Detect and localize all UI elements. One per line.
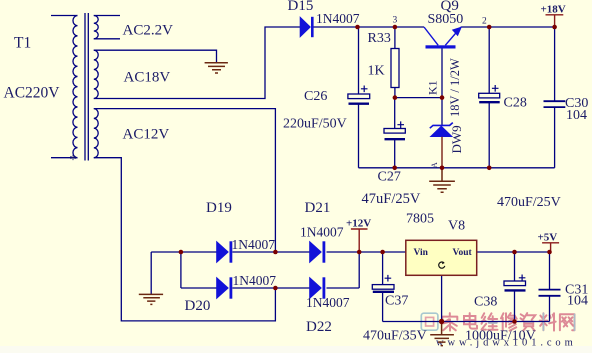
svg-text:470uF/35V: 470uF/35V: [363, 329, 427, 344]
svg-text:+12V: +12V: [346, 218, 371, 230]
svg-text:1N4007: 1N4007: [300, 225, 344, 240]
svg-text:A: A: [430, 162, 439, 168]
svg-text:C27: C27: [378, 170, 401, 185]
svg-text:Vout: Vout: [453, 248, 473, 258]
svg-text:3: 3: [393, 16, 398, 26]
svg-text:DW9: DW9: [449, 125, 464, 153]
svg-text:1K: 1K: [368, 64, 385, 79]
svg-text:7805: 7805: [406, 212, 434, 227]
svg-text:*: *: [70, 153, 77, 168]
svg-text:C37: C37: [385, 294, 408, 309]
svg-text:R33: R33: [368, 31, 391, 46]
svg-text:D22: D22: [306, 319, 332, 335]
svg-text:D21: D21: [305, 200, 331, 216]
svg-text:+5V: +5V: [538, 232, 558, 244]
svg-text:470uF/25V: 470uF/25V: [497, 195, 561, 210]
svg-text:Vin: Vin: [414, 248, 429, 258]
svg-text:AC2.2V: AC2.2V: [123, 23, 174, 39]
svg-text:D19: D19: [206, 200, 232, 216]
svg-text:D15: D15: [288, 0, 314, 14]
svg-text:1N4007: 1N4007: [233, 273, 277, 288]
svg-text:S8050: S8050: [428, 12, 464, 27]
svg-text:1N4007: 1N4007: [232, 237, 276, 252]
svg-text:AC220V: AC220V: [4, 85, 61, 102]
svg-text:AC18V: AC18V: [124, 70, 171, 86]
svg-text:AC12V: AC12V: [123, 127, 170, 143]
svg-text:1N4007: 1N4007: [316, 11, 360, 26]
svg-text:1000uF/10V: 1000uF/10V: [465, 329, 536, 344]
svg-text:K1: K1: [426, 80, 440, 95]
svg-text:2: 2: [482, 17, 487, 27]
svg-text:C26: C26: [304, 89, 327, 104]
svg-text:104: 104: [567, 294, 588, 309]
svg-text:C28: C28: [504, 96, 527, 111]
svg-text:V8: V8: [448, 219, 465, 234]
svg-text:220uF/50V: 220uF/50V: [283, 117, 347, 132]
svg-text:D20: D20: [185, 298, 211, 314]
svg-text:C38: C38: [474, 295, 497, 310]
svg-text:T1: T1: [14, 35, 31, 52]
svg-text:47uF/25V: 47uF/25V: [362, 191, 421, 207]
svg-text:+18V: +18V: [541, 4, 566, 16]
svg-text:104: 104: [566, 108, 587, 123]
svg-text:1N4007: 1N4007: [306, 295, 350, 310]
svg-text:18V / 1/2W: 18V / 1/2W: [448, 58, 462, 117]
